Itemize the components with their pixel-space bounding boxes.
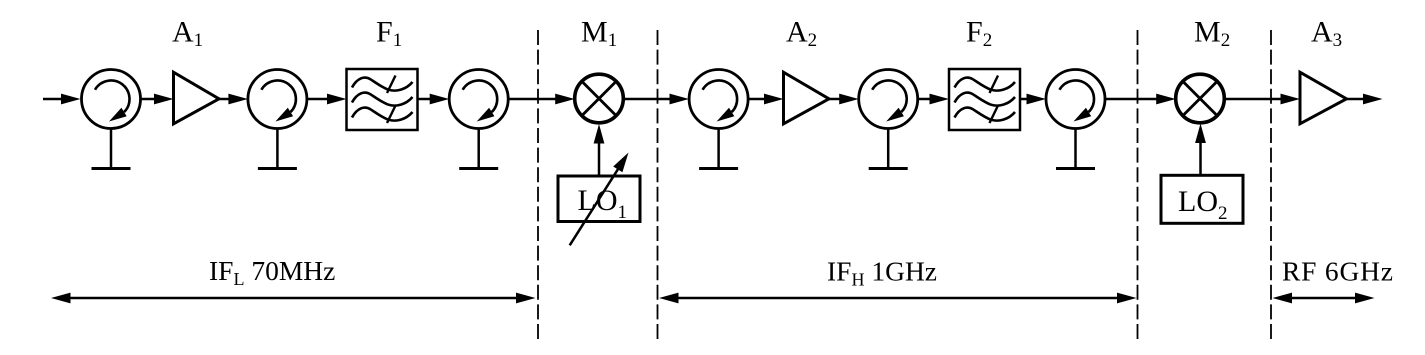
wire: A1 to circulator 2: [219, 94, 248, 105]
svg-text:IFH 1GHz: IFH 1GHz: [827, 256, 937, 290]
amplifier A1: [174, 72, 220, 124]
oscillator box LO1: [558, 176, 640, 222]
dashed boundary line 3 (IF_H / M2): [1137, 30, 1139, 339]
circulator 2 (with terminated port): [248, 70, 307, 169]
mixer M1: [575, 74, 624, 123]
circulator 6 (with terminated port): [1046, 70, 1105, 169]
filter F2 (band-pass): [949, 69, 1020, 130]
svg-text:IFL 70MHz: IFL 70MHz: [209, 255, 335, 289]
wire: output with arrowhead: [1347, 94, 1383, 105]
wire: F2 to circulator 6: [1020, 94, 1046, 105]
wire: A2 to circulator 5: [829, 94, 859, 105]
circulator 5 (with terminated port): [859, 70, 918, 169]
circulator 4 (with terminated port): [689, 70, 748, 169]
svg-text:A2: A2: [786, 16, 817, 52]
span arrow IF_H (double-headed): [659, 293, 1137, 304]
oscillator box LO2: [1161, 175, 1243, 223]
wire: mixer M2 to A3: [1224, 94, 1300, 105]
wire: circulator 1 to A1: [141, 94, 174, 105]
mixer M2: [1176, 74, 1225, 123]
svg-text:F1: F1: [376, 16, 402, 52]
svg-text:RF 6GHz: RF 6GHz: [1282, 256, 1394, 287]
span arrow IF_L (double-headed): [51, 293, 536, 304]
filter F1 (band-pass): [347, 69, 418, 130]
amplifier A3: [1300, 72, 1347, 124]
wire: circulator 4 to A2: [748, 94, 783, 105]
svg-text:A1: A1: [172, 16, 203, 52]
wire: LO2 to mixer M2 (up arrow): [1195, 124, 1206, 176]
amplifier A2: [784, 72, 830, 124]
wire: circulator 3 to mixer M1: [508, 94, 575, 105]
svg-text:LO2: LO2: [1178, 185, 1228, 224]
wire: mixer M1 to circulator 4: [623, 94, 689, 105]
dashed boundary line 4 (M2 / RF): [1270, 30, 1272, 339]
tuning arrow through LO1: [570, 153, 629, 246]
wire: circulator 5 to F2: [918, 94, 949, 105]
wire: LO1 to mixer M1 (up arrow): [594, 124, 605, 176]
svg-text:M1: M1: [581, 16, 617, 52]
svg-text:F2: F2: [966, 16, 992, 52]
svg-text:A3: A3: [1311, 16, 1342, 52]
dashed boundary line 1 (IF_L / M1): [537, 30, 539, 339]
circulator 3 (with terminated port): [449, 70, 508, 169]
wire: F1 to circulator 3: [418, 94, 450, 105]
circulator 1 (with terminated port): [82, 70, 141, 169]
wire: circulator 2 to F1: [307, 94, 347, 105]
svg-text:LO1: LO1: [578, 184, 628, 223]
svg-text:M2: M2: [1194, 16, 1230, 52]
span arrow RF (double-headed): [1273, 293, 1375, 304]
wire: input with arrowhead: [43, 94, 81, 105]
wire: circulator 6 to mixer M2: [1105, 94, 1176, 105]
dashed boundary line 2 (M1 / IF_H): [657, 30, 659, 339]
